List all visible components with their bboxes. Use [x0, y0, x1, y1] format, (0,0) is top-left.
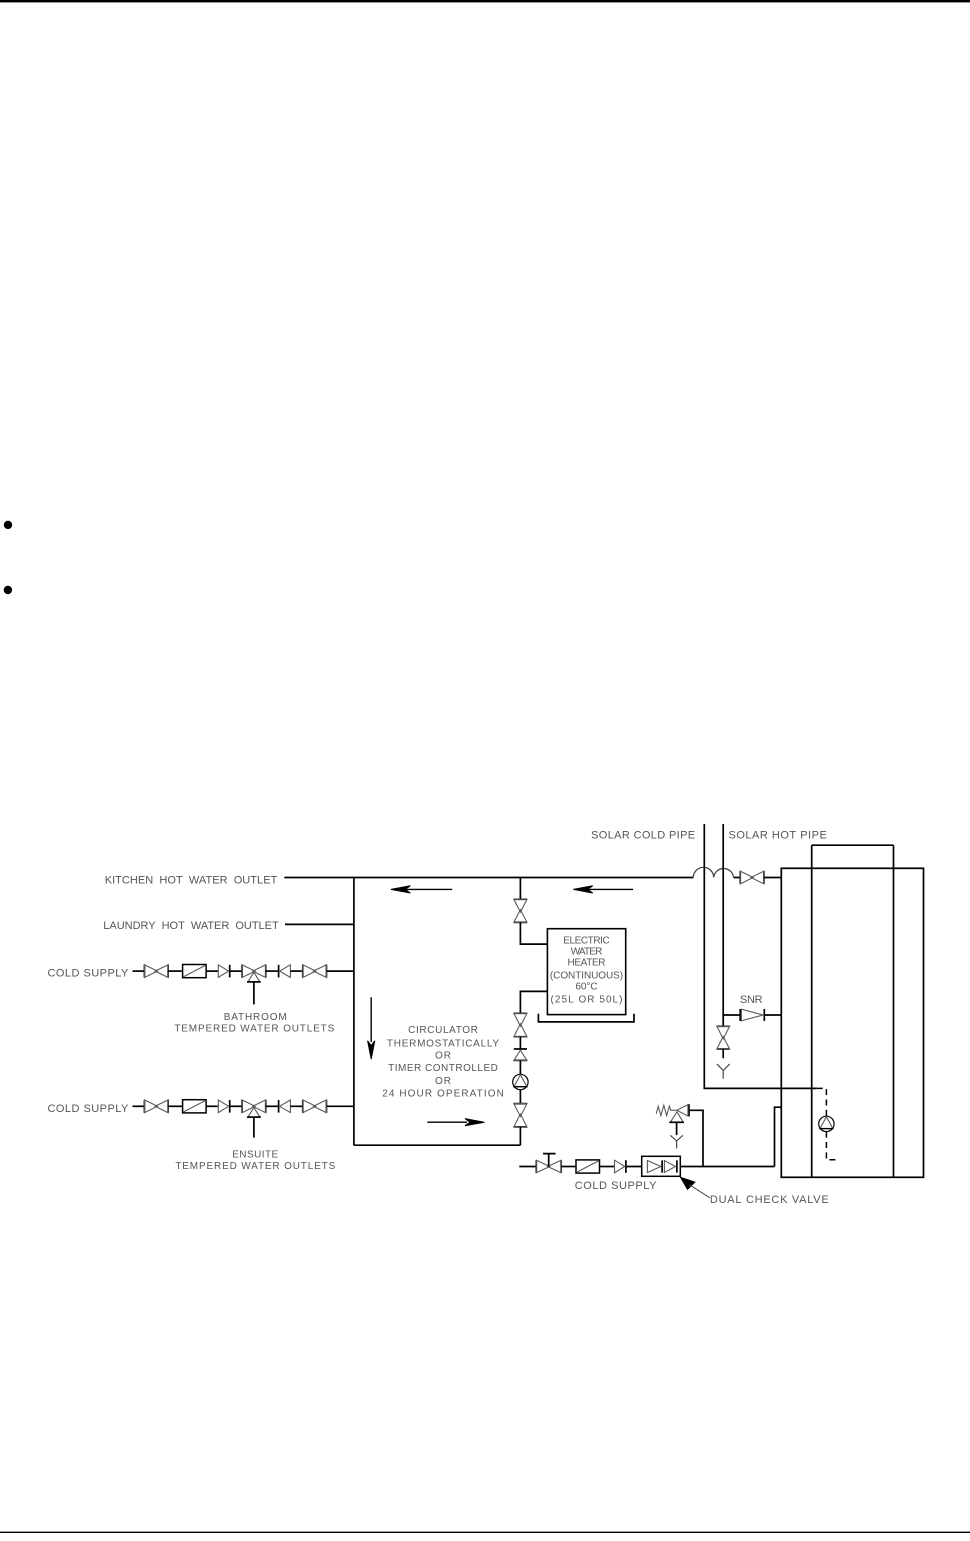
svg-text:SOLAR HOT PIPE: SOLAR HOT PIPE: [729, 830, 827, 842]
svg-text:CIRCULATOR: CIRCULATOR: [408, 1025, 478, 1036]
gate valve (cold supply isolation): [144, 1100, 168, 1113]
strainer / meter: [183, 965, 207, 978]
solar storage tank outer shell: [781, 868, 923, 1177]
bullet point 1: [4, 521, 12, 529]
svg-text:COLD SUPPLY: COLD SUPPLY: [575, 1180, 657, 1192]
wire segment: [626, 1166, 642, 1168]
wire drain stem: [722, 1049, 724, 1058]
wire segment to loop: [327, 1105, 354, 1107]
wire segment: [266, 970, 279, 972]
svg-text:(25L OR 50L): (25L OR 50L): [551, 995, 623, 1006]
wire riser segment: [519, 1037, 521, 1049]
svg-text:SNR: SNR: [740, 994, 763, 1006]
wire solar cold pipe (vertical + turn to pump): [704, 824, 816, 1088]
svg-text:OR: OR: [435, 1051, 451, 1062]
svg-text:COLD SUPPLY: COLD SUPPLY: [48, 968, 130, 980]
dashed pump suction line in tank: [817, 1088, 827, 1116]
svg-text:DUAL CHECK VALVE: DUAL CHECK VALVE: [710, 1194, 829, 1206]
circulator pump on riser: [513, 1074, 528, 1089]
check valve on riser (upward): [514, 1049, 527, 1060]
wire circulation loop bottom side: [354, 1144, 521, 1146]
gate valve (return isolation): [303, 1100, 327, 1113]
svg-text:WATER: WATER: [571, 946, 603, 957]
wire segment: [168, 1105, 183, 1107]
TPR relief valve body: [669, 1104, 689, 1122]
wire segment: [206, 970, 218, 972]
svg-text:KITCHEN HOT WATER OUTLET: KITCHEN HOT WATER OUTLET: [105, 875, 278, 887]
wire segment: [290, 1105, 302, 1107]
gate valve below heater: [514, 1013, 527, 1036]
svg-text:ENSUITE: ENSUITE: [232, 1149, 278, 1160]
wire riser top segment: [519, 878, 521, 900]
svg-text:HEATER: HEATER: [568, 958, 606, 969]
wire segment: [230, 970, 243, 972]
wire cold supply main inlet: [519, 1166, 536, 1168]
gate valve on solar hot line to tank: [740, 871, 764, 884]
wire heater inlet: [520, 922, 547, 944]
gate valve above heater: [514, 899, 527, 922]
wire laundry hot water outlet line: [285, 923, 354, 925]
svg-text:24 HOUR OPERATION: 24 HOUR OPERATION: [382, 1088, 504, 1099]
wire cold supply inlet stub: [133, 970, 145, 972]
bullet point 2: [4, 586, 12, 594]
wire solar hot pipe (vertical + turn to SNR valve): [723, 824, 740, 1015]
svg-text:TIMER CONTROLLED: TIMER CONTROLLED: [388, 1063, 498, 1074]
gate valve (cold supply isolation): [144, 965, 168, 978]
svg-text:ELECTRIC: ELECTRIC: [563, 935, 609, 946]
flow arrow right (loop bottom): [427, 1121, 467, 1123]
svg-text:TEMPERED WATER OUTLETS: TEMPERED WATER OUTLETS: [175, 1161, 335, 1172]
wire main cold supply to tank riser: [680, 1166, 774, 1168]
wire segment: [561, 1166, 576, 1168]
stop valve with handle (cold supply main): [536, 1154, 561, 1173]
wire valve to tank: [764, 877, 781, 879]
wire segment to loop: [327, 970, 354, 972]
svg-text:THERMOSTATICALLY: THERMOSTATICALLY: [387, 1039, 500, 1050]
wire riser segment: [519, 1060, 521, 1074]
wire segment: [600, 1166, 615, 1168]
strainer / meter (main cold supply): [576, 1160, 600, 1173]
leader arrow to dual check valve: [681, 1177, 695, 1189]
wire segment: [230, 1105, 243, 1107]
electric water heater box: [547, 929, 625, 1015]
svg-text:BATHROOM: BATHROOM: [224, 1012, 287, 1023]
SNR check valve: [740, 1009, 764, 1021]
wire circulation loop left side: [353, 878, 355, 1146]
TPR relief valve spring (zigzag): [656, 1105, 677, 1115]
page top black bar: [0, 0, 970, 2]
svg-text:OR: OR: [435, 1076, 451, 1087]
tank inner wall left: [811, 845, 813, 1177]
dual check valve assembly: [642, 1156, 681, 1176]
svg-text:TEMPERED WATER OUTLETS: TEMPERED WATER OUTLETS: [174, 1024, 334, 1035]
dashed pump discharge line in tank: [826, 1132, 839, 1160]
tempering valve with outlet drop: [242, 1100, 266, 1138]
solar circulating pump (dashed circuit): [819, 1116, 834, 1131]
tank top cap line: [812, 844, 894, 846]
wire relief drain stem: [676, 1122, 678, 1135]
gate valve (return isolation): [303, 965, 327, 978]
wire kitchen hot water outlet line with hops over solar pipes: [284, 877, 740, 879]
page bottom rule: [0, 1532, 970, 1533]
tempering valve with outlet drop: [242, 965, 266, 1005]
svg-text:COLD SUPPLY: COLD SUPPLY: [48, 1103, 130, 1115]
bracket under heater box: [538, 1014, 634, 1022]
wire segment: [206, 1105, 218, 1107]
wire cold supply inlet stub: [133, 1105, 145, 1107]
svg-text:LAUNDRY HOT WATER OUTLET: LAUNDRY HOT WATER OUTLET: [103, 920, 279, 932]
wire segment: [266, 1105, 279, 1107]
wire heater outlet: [520, 991, 547, 1013]
wire riser bottom segment: [519, 1127, 521, 1145]
check valve (flow left): [279, 1100, 291, 1113]
gate valve at riser bottom: [514, 1104, 527, 1127]
wire SNR valve to tank: [764, 1014, 781, 1016]
svg-text:60°C: 60°C: [575, 982, 597, 993]
svg-text:SOLAR COLD PIPE: SOLAR COLD PIPE: [591, 830, 695, 842]
wire relief valve outlet to cold line: [689, 1110, 703, 1166]
check valve (flow right): [218, 965, 229, 978]
drain point Y symbol (solar hot pipe): [717, 1064, 730, 1079]
svg-text:(CONTINUOUS): (CONTINUOUS): [550, 971, 623, 982]
check valve (flow right): [218, 1100, 229, 1113]
drain gate valve on solar hot pipe: [717, 1026, 730, 1049]
wire solar hot pipe drain stub: [722, 1015, 724, 1026]
wire segment: [290, 970, 302, 972]
check valve (flow left): [279, 965, 291, 978]
flow arrow left 2: [588, 888, 633, 890]
wire tank cold feed riser: [775, 1107, 782, 1166]
wire segment: [168, 970, 183, 972]
check valve (main cold supply): [615, 1160, 626, 1173]
pipe crossing hop arcs: [693, 867, 733, 877]
flow arrow left 1: [406, 888, 452, 890]
tank inner wall right: [893, 845, 895, 1177]
drain point Y symbol (relief valve): [670, 1135, 683, 1148]
strainer / meter: [183, 1100, 207, 1113]
wire riser segment: [519, 1090, 521, 1104]
flow arrow down (loop left): [370, 997, 372, 1042]
